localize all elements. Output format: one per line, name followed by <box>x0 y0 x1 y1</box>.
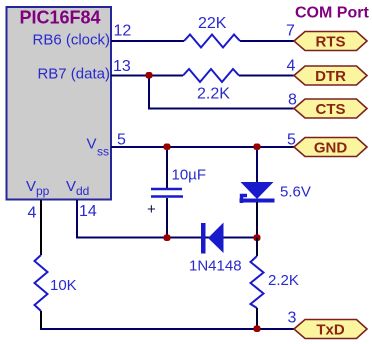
svg-text:CTS: CTS <box>316 101 346 118</box>
svg-text:V: V <box>66 178 76 195</box>
svg-text:V: V <box>86 136 96 153</box>
svg-text:pp: pp <box>36 184 50 198</box>
svg-text:5: 5 <box>117 132 126 149</box>
svg-text:2.2K: 2.2K <box>197 86 230 103</box>
svg-text:RB7 (data): RB7 (data) <box>37 66 110 83</box>
wire mid row <box>76 237 257 239</box>
junction RB7 branch <box>146 72 153 79</box>
svg-text:V: V <box>26 178 36 195</box>
svg-text:COM Port: COM Port <box>295 5 369 22</box>
tag TxD <box>294 320 367 339</box>
wire branch RB7 to CTS <box>148 76 150 109</box>
zener diode D1 5.6V <box>240 182 275 203</box>
tag DTR <box>294 66 367 85</box>
tag CTS <box>294 99 367 118</box>
svg-text:dd: dd <box>76 184 89 198</box>
svg-text:3: 3 <box>288 310 297 327</box>
wire Vpp vertical lower <box>40 311 42 330</box>
wire GND row <box>111 146 295 148</box>
junction GND-zener <box>254 144 261 151</box>
wire capacitor upper lead <box>166 147 168 188</box>
svg-text:14: 14 <box>79 203 97 220</box>
junction mid-capacitor <box>164 235 171 242</box>
wire 2.2K upper lead <box>256 238 258 257</box>
junction TxD-zener branch <box>254 326 261 333</box>
svg-text:RB6 (clock): RB6 (clock) <box>32 32 110 49</box>
resistor R 10K <box>35 255 48 311</box>
svg-text:7: 7 <box>286 23 295 40</box>
wire zener lower lead <box>256 202 258 239</box>
wire capacitor lower lead <box>166 198 168 239</box>
tag RTS <box>294 32 367 51</box>
svg-text:1N4148: 1N4148 <box>189 258 242 275</box>
svg-text:4: 4 <box>28 205 37 222</box>
wire RB7 row left segment <box>111 75 183 77</box>
IC U1 PIC16F84 body <box>7 7 112 200</box>
tag GND <box>294 138 367 157</box>
svg-text:PIC16F84: PIC16F84 <box>19 8 100 28</box>
wire 2.2K lower lead <box>256 308 258 330</box>
wire TxD row <box>40 328 295 330</box>
resistor 2.2K horizontal <box>183 69 239 82</box>
diode D2 1N4148 <box>201 223 224 254</box>
junction GND-capacitor <box>164 144 171 151</box>
svg-text:4: 4 <box>287 58 296 75</box>
svg-text:5.6V: 5.6V <box>280 184 311 201</box>
resistor 22K <box>184 35 240 48</box>
svg-text:GND: GND <box>314 140 348 157</box>
svg-text:13: 13 <box>113 58 131 75</box>
wire CTS row <box>148 108 295 110</box>
svg-text:TxD: TxD <box>316 322 345 339</box>
wire zener upper lead <box>256 147 258 183</box>
svg-text:+: + <box>147 201 156 218</box>
svg-text:10µF: 10µF <box>172 167 207 184</box>
svg-text:DTR: DTR <box>315 68 346 85</box>
svg-text:10K: 10K <box>50 277 77 294</box>
wire RB6 row right segment <box>240 40 295 42</box>
wire Vpp vertical upper <box>40 200 42 255</box>
resistor R 2.2K vertical <box>251 256 264 308</box>
wire Vdd vertical <box>76 200 78 239</box>
svg-text:22K: 22K <box>198 15 227 32</box>
svg-text:2.2K: 2.2K <box>268 272 299 289</box>
junction mid-zener <box>254 235 261 242</box>
wire RB6 row left segment <box>111 40 184 42</box>
wire RB7 row right segment <box>239 75 295 77</box>
svg-text:ss: ss <box>97 145 109 159</box>
svg-text:RTS: RTS <box>316 34 346 51</box>
svg-text:12: 12 <box>114 23 132 40</box>
capacitor C1 10uF plates <box>151 188 182 191</box>
svg-text:8: 8 <box>288 92 297 109</box>
